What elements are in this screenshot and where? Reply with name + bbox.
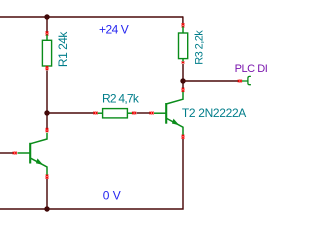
- wire: R3 bottom to PLC junction: [182, 64, 184, 88]
- wire: T2 emitter down to 0V rail and 0V rail to left edge: [0, 139, 183, 209]
- pin marks: R3 top pin: [182, 23, 185, 27]
- pin marks: R2 right pin: [132, 112, 136, 115]
- svg-text:0 V: 0 V: [103, 189, 121, 203]
- wire: mid junction down to T1 collector: [46, 113, 48, 129]
- pin marks: T1 collector pin: [46, 128, 49, 132]
- node: junction dot mid-left (R1/T1/R2): [44, 110, 49, 115]
- resistor R2 4,7k: [98, 109, 133, 118]
- pin marks: T2 collector pin: [182, 88, 185, 92]
- connector: PLC DI terminal symbol: [242, 76, 251, 84]
- node: junction dot at top rail / R1: [44, 14, 49, 19]
- wire: R2 to T2 base: [137, 112, 151, 114]
- svg-text:+24 V: +24 V: [99, 22, 129, 36]
- wire: +24V top rail horizontal: [0, 16, 183, 18]
- svg-text:R3 2,2k: R3 2,2k: [193, 30, 205, 65]
- resistor R3 2,2k: [179, 27, 188, 62]
- node: junction dot at 0V rail / T1 emitter: [44, 206, 49, 211]
- wire: T1 emitter down to 0V rail: [46, 179, 48, 209]
- pin marks: R2 left pin: [94, 112, 98, 115]
- pin marks: T2 base pin: [150, 112, 154, 115]
- wire: mid junction right to R2: [47, 112, 94, 114]
- pin marks: PLC connector pin: [238, 80, 242, 83]
- wire: base feed to T1 from left edge: [0, 152, 13, 154]
- pin marks: T1 base pin: [13, 152, 17, 155]
- svg-text:R2 4,7k: R2 4,7k: [102, 92, 140, 106]
- wire: junction down to R1 top pin: [46, 17, 48, 32]
- pin marks: T1 emitter pin: [46, 175, 49, 179]
- transistor T1 (left, unlabeled): [18, 133, 48, 175]
- pin marks: T2 emitter pin: [182, 135, 185, 139]
- transistor T2 2N2222A: [154, 91, 183, 135]
- wire: R1 bottom to mid junction: [46, 71, 48, 114]
- resistor R1 24k: [42, 35, 51, 67]
- svg-text:PLC DI: PLC DI: [235, 63, 268, 75]
- pin marks: R1 bottom pin: [46, 66, 49, 70]
- pin marks: R3 bottom pin: [182, 62, 185, 64]
- node: junction dot at R3 / T2 collector / PLC tap: [180, 78, 185, 83]
- wire: top rail corner down to R3 top pin: [182, 16, 184, 23]
- svg-text:T2 2N2222A: T2 2N2222A: [182, 106, 246, 120]
- pin marks: R1 top pin: [46, 31, 49, 35]
- svg-text:R1 24k: R1 24k: [56, 31, 70, 68]
- wire: junction right to PLC connector: [183, 80, 239, 82]
